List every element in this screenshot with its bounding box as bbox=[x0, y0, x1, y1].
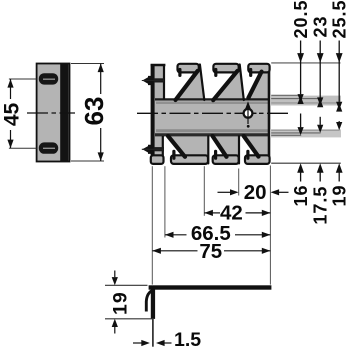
flange right wall bottom bbox=[162, 136, 164, 157]
slot hole bottom bbox=[39, 142, 58, 153]
bracket leg bbox=[151, 289, 155, 319]
bottom slot ceiling line bbox=[155, 133, 269, 136]
top fin diagonal 2 bbox=[213, 71, 237, 100]
svg-text:1.5: 1.5 bbox=[174, 329, 201, 350]
bottom fin cap 3 bbox=[245, 155, 270, 164]
top slot left wall 3 bbox=[240, 65, 244, 101]
projection band upper bbox=[270, 96, 341, 106]
top cap 3 lip bbox=[249, 70, 252, 76]
top slot floor line bbox=[155, 98, 269, 100]
dimension 19 (bracket) bbox=[105, 284, 148, 286]
top groove band bbox=[156, 102, 269, 104]
top slot 1 opening bbox=[164, 58, 198, 100]
profile left edge bbox=[151, 64, 155, 163]
bracket leg extension line bbox=[152, 319, 154, 347]
ref line 17.5 bbox=[271, 132, 320, 134]
flange top edge bbox=[151, 64, 166, 67]
dimension 23 upper / 17.5 lower bbox=[319, 41, 321, 98]
svg-text:19: 19 bbox=[109, 291, 131, 315]
dimension 20.5 upper / 16 lower bbox=[300, 41, 302, 95]
bottom cap 1 lip bbox=[172, 151, 175, 158]
flange bottom tab bbox=[151, 155, 164, 164]
ext line 63 bottom bbox=[71, 160, 104, 162]
side view centerline bbox=[27, 112, 75, 114]
top slot 2 opening bbox=[200, 58, 238, 100]
mounting screw at y=80.5 bbox=[142, 76, 153, 85]
bottom fin cap 1 bbox=[171, 155, 208, 164]
ref line fin bottom bbox=[271, 162, 341, 164]
top fin cap 1 bbox=[178, 64, 199, 73]
top slot left wall 2 bbox=[200, 65, 204, 101]
dimension 42 bbox=[204, 212, 220, 214]
dimension 63 bbox=[100, 64, 102, 95]
side view mounting flange (black bar) bbox=[60, 63, 68, 162]
dimension 1.5 bbox=[133, 342, 142, 344]
bottom slot 1 opening bbox=[163, 136, 185, 169]
bottom slot left wall 3 bbox=[238, 136, 240, 163]
bottom slot 2 opening bbox=[208, 136, 226, 169]
bracket bend outer curve bbox=[146, 290, 153, 312]
heatsink profile body bbox=[151, 64, 269, 164]
centerline solid through hole bbox=[240, 112, 257, 114]
dimension 45 bbox=[10, 79, 12, 99]
bracket top plate bbox=[149, 285, 272, 289]
projection band lower bbox=[270, 129, 341, 137]
svg-text:19: 19 bbox=[329, 184, 349, 206]
svg-text:20.5: 20.5 bbox=[291, 0, 311, 39]
dimension 25.5 upper / 19 lower bbox=[338, 41, 340, 102]
svg-text:17.5: 17.5 bbox=[310, 186, 330, 225]
ext line 42 left bbox=[203, 166, 205, 216]
svg-text:63: 63 bbox=[79, 97, 109, 126]
bottom cap 3 lip bbox=[246, 151, 249, 158]
svg-text:25.5: 25.5 bbox=[329, 0, 349, 39]
ref line 20.5 bbox=[271, 94, 301, 96]
bottom slot left wall 2 bbox=[207, 136, 209, 163]
svg-text:16: 16 bbox=[291, 184, 311, 206]
ext line 45 bottom bbox=[9, 147, 37, 149]
flange right wall top bbox=[163, 65, 165, 99]
bottom cap 2 lip bbox=[214, 151, 217, 158]
arrow at hole centerline top bbox=[245, 101, 251, 109]
slot hole top bbox=[39, 73, 58, 84]
svg-text:20: 20 bbox=[244, 181, 267, 204]
bottom fin cap 2 bbox=[213, 155, 239, 164]
hole vertical centerline bbox=[247, 104, 249, 125]
dimension 75 bbox=[152, 250, 197, 252]
centerline dot below hole bbox=[247, 125, 250, 128]
bottom fin diagonal 1 bbox=[168, 136, 185, 157]
ref line 19 bbox=[271, 129, 339, 131]
ext line 66.5 left bbox=[164, 166, 166, 237]
profile right edge bbox=[268, 65, 271, 163]
mounting screw at y=149.3 bbox=[142, 145, 153, 154]
ext line 45 top bbox=[9, 78, 37, 80]
bottom fin diagonal 2 bbox=[213, 136, 227, 157]
bottom fin diagonal 3 bbox=[244, 136, 259, 157]
ref line 16 bbox=[271, 134, 301, 136]
ref line 25.5 bbox=[271, 102, 339, 104]
top slot 3 opening bbox=[240, 58, 262, 100]
dimension 66.5 bbox=[165, 234, 187, 236]
side view body bbox=[37, 64, 70, 162]
svg-text:45: 45 bbox=[0, 103, 23, 127]
top fin diagonal 1 bbox=[176, 71, 198, 100]
ext line 75 right / datum bbox=[269, 166, 271, 285]
top cap 1 lip bbox=[178, 70, 181, 76]
top fin cap 2 bbox=[213, 64, 238, 73]
bottom slot 3 opening bbox=[239, 136, 259, 169]
front view centerline bbox=[137, 112, 291, 114]
bottom groove band bbox=[156, 129, 269, 132]
svg-text:75: 75 bbox=[199, 240, 222, 263]
svg-text:23: 23 bbox=[310, 15, 330, 37]
top cap 2 lip bbox=[214, 70, 217, 76]
ref line 23 bbox=[271, 98, 320, 100]
dimension 20 bbox=[218, 191, 231, 193]
ext line 20 left bbox=[238, 169, 240, 196]
mounting hole bbox=[244, 109, 253, 118]
ref line fin top bbox=[271, 62, 340, 64]
ext line 63 top bbox=[71, 63, 104, 65]
ext line 75 left bbox=[151, 166, 153, 284]
top fin cap 3 bbox=[248, 64, 269, 73]
top fin diagonal 3 bbox=[248, 72, 261, 98]
